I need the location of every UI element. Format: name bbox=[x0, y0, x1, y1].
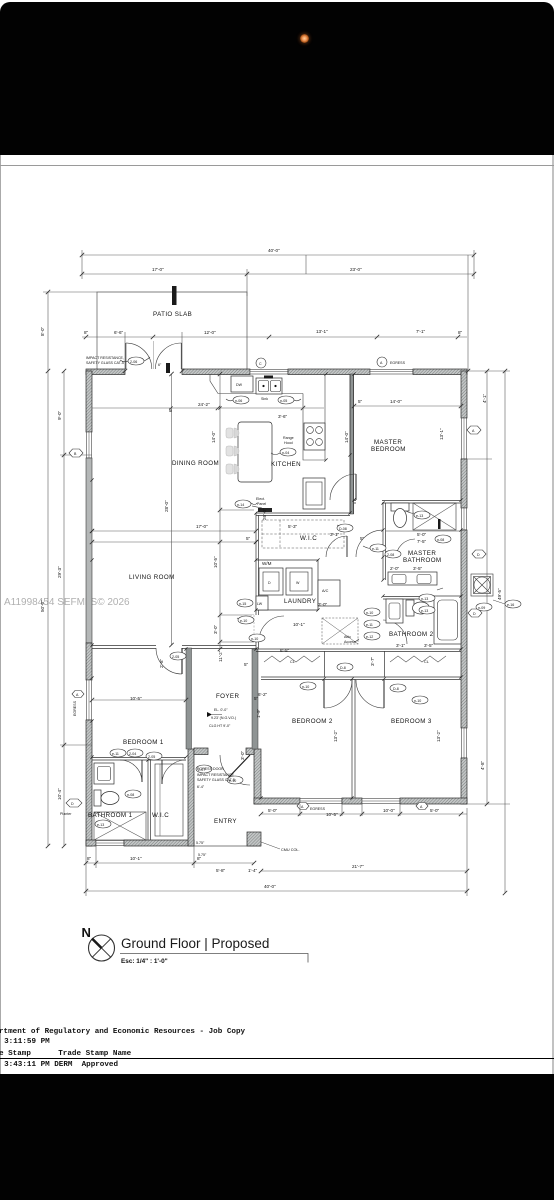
interior wall: bathroom2 top (y597) bbox=[383, 597, 461, 600]
exterior wall: left, lower segment bbox=[86, 720, 92, 846]
svg-text:6'-2": 6'-2" bbox=[258, 692, 268, 697]
svg-text:W.I.C: W.I.C bbox=[300, 535, 317, 542]
svg-text:IMPACT RESISTANCE: IMPACT RESISTANCE bbox=[197, 773, 235, 777]
dimension: left 9'-0" / 29'-3" / 10'-4" bbox=[57, 371, 92, 846]
entry front wall segment right bbox=[246, 748, 254, 755]
interior wall: bedroom2/3 divider (x353) bbox=[352, 679, 355, 798]
svg-text:3'-1": 3'-1" bbox=[330, 532, 340, 537]
svg-text:5": 5" bbox=[358, 399, 363, 404]
svg-text:3'-0": 3'-0" bbox=[213, 624, 218, 634]
svg-text:10'-5": 10'-5" bbox=[213, 556, 218, 568]
svg-text:6'-4": 6'-4" bbox=[197, 785, 205, 789]
window: living room upper (left wall) bbox=[87, 432, 92, 458]
callout oval 2-05 living door bbox=[170, 652, 186, 660]
svg-text:5'-0": 5'-0" bbox=[430, 808, 440, 813]
dimension: left 50'-0" overall bbox=[40, 371, 48, 846]
svg-text:MASTER: MASTER bbox=[374, 439, 402, 446]
window: bedroom1 egress (left wall) bbox=[87, 680, 92, 720]
exterior wall: left, long gray segment bbox=[86, 458, 92, 643]
callout oval e-12 core bbox=[364, 632, 380, 640]
svg-text:2-06: 2-06 bbox=[130, 360, 137, 364]
svg-text:8": 8" bbox=[458, 330, 463, 335]
svg-text:Sink: Sink bbox=[261, 397, 268, 401]
svg-text:n-05: n-05 bbox=[280, 399, 287, 403]
svg-text:6": 6" bbox=[158, 363, 162, 367]
svg-text:EGRESS: EGRESS bbox=[310, 807, 326, 811]
svg-text:13'-1": 13'-1" bbox=[439, 428, 444, 440]
svg-text:BATHROOM 2: BATHROOM 2 bbox=[389, 631, 434, 638]
svg-text:24'-2": 24'-2" bbox=[198, 402, 210, 407]
svg-text:n-13: n-13 bbox=[421, 597, 428, 601]
master bath shower bbox=[413, 503, 456, 530]
title underline bbox=[120, 954, 308, 963]
svg-text:2-04: 2-04 bbox=[129, 752, 136, 756]
svg-text:MASTER: MASTER bbox=[408, 550, 436, 557]
svg-text:n-09: n-09 bbox=[478, 606, 485, 610]
window: bathroom1 (bottom wall) bbox=[96, 841, 124, 846]
svg-text:6'-6": 6'-6" bbox=[114, 330, 124, 335]
bathroom2 vanity bbox=[386, 599, 403, 623]
callout oval n-10 core door bbox=[249, 634, 265, 642]
dim line x220 vertical (14'-0"/10'-5"/3'-0") bbox=[213, 374, 254, 649]
bedroom1 door swing bbox=[156, 648, 182, 674]
interior dims master bbox=[354, 399, 461, 440]
svg-text:CMU COL.: CMU COL. bbox=[281, 848, 300, 852]
washer box bbox=[286, 568, 312, 595]
svg-text:D: D bbox=[477, 553, 480, 557]
interior wall: foyer right / bedroom2 left (x252) bbox=[252, 649, 258, 749]
callout oval n-08 bath2 bbox=[435, 535, 451, 543]
svg-text:3'-5": 3'-5" bbox=[413, 566, 423, 571]
interior dims kitchen bbox=[92, 402, 349, 443]
callout oval n-13 mbath2 bbox=[419, 594, 435, 602]
callout oval D-08 hall bbox=[337, 524, 353, 532]
svg-text:DW: DW bbox=[236, 383, 243, 387]
callout oval e-13 shower bbox=[414, 511, 430, 519]
bathroom2 tub bbox=[434, 596, 461, 644]
page viewer border right bbox=[552, 155, 554, 1074]
svg-text:11'-2": 11'-2" bbox=[218, 650, 223, 662]
svg-text:12'-0": 12'-0" bbox=[204, 330, 216, 335]
callout oval D-8 bed3 door bbox=[390, 684, 406, 692]
callout oval 2-06 patio door bbox=[128, 357, 144, 365]
interior wall: core top (y513) bbox=[256, 513, 350, 516]
window: master bedroom egress (top wall) bbox=[370, 370, 413, 375]
hexagon A right (master window) bbox=[467, 426, 481, 434]
svg-text:n-15: n-15 bbox=[239, 602, 246, 606]
window: bedroom2 (bottom wall) bbox=[300, 799, 342, 804]
svg-text:e-11: e-11 bbox=[372, 547, 379, 551]
A/C closet bbox=[318, 580, 340, 606]
interior wall: core left (x256) bbox=[256, 513, 259, 649]
svg-text:e-13: e-13 bbox=[97, 823, 104, 827]
skylight detail right side bbox=[471, 574, 493, 596]
bathroom1 / wic1 walls bbox=[92, 758, 186, 841]
dimension tick slashes bbox=[46, 253, 507, 895]
svg-text:5'-3": 5'-3" bbox=[288, 524, 298, 529]
svg-text:LAUNDRY: LAUNDRY bbox=[284, 598, 316, 605]
svg-text:14'-0": 14'-0" bbox=[211, 431, 216, 443]
svg-text:40'-0": 40'-0" bbox=[264, 884, 276, 889]
callout oval 2-04 bed1 bbox=[127, 749, 143, 757]
window extension lines bottom bbox=[300, 255, 400, 816]
svg-text:4'-1": 4'-1" bbox=[482, 393, 487, 403]
svg-text:10'-5": 10'-5" bbox=[326, 812, 338, 817]
svg-text:e-11: e-11 bbox=[366, 623, 373, 627]
master bath counter line and valve bbox=[386, 519, 460, 544]
svg-text:10'-1": 10'-1" bbox=[130, 856, 142, 861]
svg-text:7'-5": 7'-5" bbox=[417, 539, 427, 544]
callout oval n-10 bed2 bbox=[300, 682, 316, 690]
svg-text:3'-6": 3'-6" bbox=[278, 414, 288, 419]
window: bedroom3 (bottom wall) bbox=[362, 799, 400, 804]
svg-text:EGRESS: EGRESS bbox=[390, 361, 406, 365]
CMU column at porch corner bbox=[247, 832, 261, 846]
interior wall: closet row bottom / bedrooms top (y678) bbox=[261, 677, 461, 680]
window: kitchen (top wall) bbox=[250, 370, 288, 375]
window: master bath (right wall) bbox=[462, 508, 467, 530]
callout oval n-10 hall bbox=[364, 608, 380, 616]
svg-text:50'-0": 50'-0" bbox=[40, 600, 45, 612]
svg-text:8'-0": 8'-0" bbox=[40, 326, 45, 336]
svg-text:W/M: W/M bbox=[262, 561, 272, 566]
svg-text:BEDROOM 2: BEDROOM 2 bbox=[292, 718, 333, 725]
top black band bbox=[0, 2, 554, 155]
svg-text:BATHROOM 1: BATHROOM 1 bbox=[88, 812, 133, 819]
dimension: overall width 40'-0" top bbox=[82, 248, 474, 371]
svg-text:Access: Access bbox=[344, 640, 356, 644]
svg-text:3'-1": 3'-1" bbox=[396, 643, 406, 648]
svg-text:13'-2": 13'-2" bbox=[333, 730, 338, 742]
svg-text:1'-9": 1'-9" bbox=[256, 708, 261, 718]
egress hexagon left bedroom1 bbox=[72, 691, 84, 717]
front door swing bbox=[220, 755, 250, 785]
svg-text:CL: CL bbox=[424, 660, 429, 664]
callout oval e-11 bed1 bbox=[110, 749, 126, 757]
callout oval n-14 panel bbox=[235, 500, 251, 508]
closet bifold doors bedroom3 bbox=[385, 651, 447, 677]
interior dims misc core bbox=[244, 532, 434, 667]
svg-text:Range: Range bbox=[283, 436, 294, 440]
svg-text:10'-1": 10'-1" bbox=[293, 622, 305, 627]
circle A top egress bbox=[377, 357, 406, 367]
svg-text:13'-2": 13'-2" bbox=[436, 730, 441, 742]
level marker foyer bbox=[207, 708, 236, 728]
svg-text:LIVING ROOM: LIVING ROOM bbox=[129, 574, 175, 581]
refrigerator bbox=[303, 478, 325, 509]
svg-text:N: N bbox=[82, 925, 91, 940]
dim line y542 living bbox=[92, 536, 256, 542]
bedroom2 door swing from hall bbox=[324, 680, 352, 708]
dryer box bbox=[259, 568, 283, 595]
svg-text:5'-8": 5'-8" bbox=[216, 868, 226, 873]
svg-text:CLG HT 9'-0": CLG HT 9'-0" bbox=[209, 724, 231, 728]
svg-text:2'-0": 2'-0" bbox=[390, 566, 400, 571]
svg-text:Attic: Attic bbox=[344, 635, 351, 639]
svg-text:n-04: n-04 bbox=[282, 451, 289, 455]
svg-text:6'-5": 6'-5" bbox=[280, 648, 290, 653]
svg-text:23'-0": 23'-0" bbox=[350, 267, 362, 272]
interior wall: kitchen/master divider (vertical x351) bbox=[350, 374, 354, 514]
callout leader lines bbox=[120, 357, 443, 642]
extra small dims core bbox=[262, 524, 328, 607]
exterior wall: right, segment 3 bbox=[461, 530, 467, 728]
exterior wall: top, segment between patio door and kitchen window bbox=[182, 369, 250, 375]
window: master bedroom (right wall) bbox=[462, 418, 467, 459]
svg-text:Elect.: Elect. bbox=[256, 497, 265, 501]
svg-text:26'-0": 26'-0" bbox=[262, 508, 267, 520]
callout oval n-09 right bbox=[476, 603, 492, 611]
orange indicator dot bbox=[300, 34, 309, 43]
svg-text:A/C: A/C bbox=[322, 589, 329, 593]
svg-text:EGRESS: EGRESS bbox=[73, 700, 77, 716]
svg-text:3'-0": 3'-0" bbox=[240, 750, 245, 760]
callout oval e-10 entry bbox=[227, 776, 243, 784]
svg-text:7'-1": 7'-1" bbox=[416, 329, 426, 334]
exterior wall: top, segment right bbox=[413, 369, 467, 375]
laundry sink small bbox=[256, 596, 268, 610]
exterior wall: left, mid hatched segment bbox=[86, 643, 92, 680]
egress door note entry bbox=[197, 767, 235, 789]
svg-text:9.23' (N.G.V.D.): 9.23' (N.G.V.D.) bbox=[211, 716, 236, 720]
svg-text:2-05: 2-05 bbox=[172, 655, 179, 659]
svg-text:PATIO SLAB: PATIO SLAB bbox=[153, 311, 192, 318]
patio french doors bbox=[126, 341, 182, 373]
interior wall: bedroom1 right / foyer left (x186) bbox=[186, 648, 192, 749]
svg-text:10'-0": 10'-0" bbox=[383, 808, 395, 813]
svg-text:Planter: Planter bbox=[60, 812, 72, 816]
bathroom2 door swing bbox=[383, 620, 407, 644]
callout oval e-13 bath1 bbox=[95, 820, 111, 828]
svg-text:17'-0": 17'-0" bbox=[152, 267, 164, 272]
egress hexagon bottom bedroom2 bbox=[297, 803, 326, 812]
bathroom1 shower bbox=[94, 812, 146, 840]
svg-text:DINING ROOM: DINING ROOM bbox=[172, 460, 219, 467]
svg-text:n-10: n-10 bbox=[251, 637, 258, 641]
entry left wall bbox=[188, 749, 194, 846]
svg-text:3'-7": 3'-7" bbox=[370, 656, 375, 666]
hexagon D right lower bbox=[468, 609, 482, 617]
bedroom1 width dim line bbox=[92, 699, 186, 701]
callout oval e-13 mtoilet bbox=[419, 606, 435, 614]
svg-text:W.I.C: W.I.C bbox=[152, 812, 169, 819]
dimension: left 8'-0" patio bbox=[40, 292, 97, 371]
exterior wall: bedrooms bottom bbox=[254, 798, 300, 804]
svg-text:40'-0": 40'-0" bbox=[268, 248, 280, 253]
svg-text:n-08: n-08 bbox=[127, 793, 134, 797]
svg-text:14'-0": 14'-0" bbox=[344, 431, 349, 443]
interior dims living bbox=[92, 508, 267, 531]
svg-text:D-08: D-08 bbox=[339, 527, 347, 531]
svg-text:5": 5" bbox=[244, 662, 249, 667]
dimension row y337 bbox=[82, 329, 467, 371]
interior dims bedrooms bbox=[130, 650, 441, 760]
svg-text:EGRESS DOOR: EGRESS DOOR bbox=[197, 767, 224, 771]
kitchen double sink bbox=[256, 376, 282, 395]
svg-text:10'-5": 10'-5" bbox=[130, 696, 142, 701]
svg-text:n-10: n-10 bbox=[414, 699, 421, 703]
bathroom2 toilet bbox=[406, 600, 430, 616]
CMU COL. leader and label bbox=[261, 842, 300, 852]
interior wall: foyer top (y647) bbox=[182, 646, 256, 649]
svg-text:e-13: e-13 bbox=[421, 609, 428, 613]
callout oval n-15 core wall bbox=[237, 599, 253, 607]
impact resistance note patio door bbox=[86, 356, 124, 365]
exterior wall: right, segment 4 bbox=[461, 758, 467, 804]
exterior wall: left, upper segment bbox=[86, 371, 92, 432]
svg-text:14'-0": 14'-0" bbox=[390, 399, 402, 404]
svg-text:4'-8": 4'-8" bbox=[480, 760, 485, 770]
page viewer border left bbox=[0, 155, 2, 1074]
callout oval e-11 core bbox=[364, 620, 380, 628]
svg-text:D: D bbox=[268, 581, 271, 585]
svg-text:10'-4": 10'-4" bbox=[57, 788, 62, 800]
svg-text:BEDROOM 3: BEDROOM 3 bbox=[391, 718, 432, 725]
svg-text:1'-4": 1'-4" bbox=[248, 868, 258, 873]
entry right wall bbox=[254, 749, 261, 804]
svg-text:EL. 0'-0": EL. 0'-0" bbox=[214, 708, 228, 712]
svg-text:e-12: e-12 bbox=[366, 635, 373, 639]
svg-text:13'-1": 13'-1" bbox=[316, 329, 328, 334]
callout oval n-04 range bbox=[280, 448, 296, 456]
dimension: 17'-0" / 23'-0" bbox=[82, 267, 474, 296]
svg-text:IMPACT RESISTANCE,: IMPACT RESISTANCE, bbox=[86, 356, 124, 360]
svg-text:29'-3": 29'-3" bbox=[57, 566, 62, 578]
hexagon B left bbox=[69, 449, 83, 457]
svg-text:n-14: n-14 bbox=[237, 503, 244, 507]
hexagon D right bbox=[472, 550, 486, 558]
svg-text:21'-7": 21'-7" bbox=[352, 864, 364, 869]
svg-text:LW: LW bbox=[257, 602, 263, 606]
callout oval 2-08 mbath bbox=[385, 550, 401, 558]
interior wall: hall bottom / closet row top (y649) bbox=[256, 649, 461, 652]
closet bifold doors bedroom2 bbox=[264, 651, 325, 677]
svg-text:5": 5" bbox=[360, 536, 365, 541]
master bedroom door bbox=[330, 474, 382, 504]
patio slab outline bbox=[97, 292, 247, 371]
svg-text:Ground Floor | Proposed: Ground Floor | Proposed bbox=[121, 936, 269, 951]
callout oval n-05 sink bbox=[278, 396, 294, 404]
entry porch edge bbox=[194, 845, 261, 847]
svg-text:2-08: 2-08 bbox=[387, 553, 394, 557]
attic access bbox=[322, 618, 358, 644]
title compass bbox=[82, 925, 115, 961]
laundry room walls bbox=[256, 560, 318, 610]
svg-text:D: D bbox=[71, 802, 74, 806]
dimension: bottom rows bbox=[86, 808, 467, 896]
svg-text:5.75": 5.75" bbox=[196, 841, 205, 845]
svg-text:CL: CL bbox=[290, 660, 295, 664]
svg-text:49'-5": 49'-5" bbox=[497, 588, 502, 600]
bottom stamp text block bbox=[0, 1026, 554, 1074]
interior wall: master bath top (y501) bbox=[354, 501, 461, 504]
kitchen counter edge bbox=[210, 374, 326, 460]
svg-text:n-10: n-10 bbox=[302, 685, 309, 689]
bathroom1 toilet bbox=[94, 790, 119, 806]
entry front wall segment bbox=[194, 748, 208, 755]
callout oval 2-07 entry bbox=[196, 765, 212, 773]
svg-text:2-05: 2-05 bbox=[148, 755, 155, 759]
svg-text:5": 5" bbox=[246, 536, 251, 541]
svg-text:SAFETY GLASS CAT-5: SAFETY GLASS CAT-5 bbox=[197, 778, 235, 782]
master bath door swing bbox=[356, 530, 383, 557]
window: bedroom3 (right wall) bbox=[462, 728, 467, 758]
callout oval n-10 bed3 bbox=[412, 696, 428, 704]
planter hexagon left bbox=[60, 799, 82, 816]
svg-text:n-08: n-08 bbox=[437, 538, 444, 542]
svg-text:n-06: n-06 bbox=[235, 399, 242, 403]
svg-text:A11998454 SEFMLS© 2026: A11998454 SEFMLS© 2026 bbox=[4, 597, 130, 608]
svg-text:3'-0": 3'-0" bbox=[318, 602, 328, 607]
interior wall: living/bedroom1 (y647) bbox=[92, 646, 156, 649]
page top rule bbox=[0, 165, 554, 167]
svg-text:2'-8": 2'-8" bbox=[159, 658, 164, 668]
svg-text:KITCHEN: KITCHEN bbox=[271, 461, 301, 468]
svg-text:FOYER: FOYER bbox=[216, 693, 239, 700]
svg-text:Esc: 1/4" : 1'-0": Esc: 1/4" : 1'-0" bbox=[121, 958, 168, 965]
wic1 door swing bbox=[162, 760, 186, 784]
svg-text:D: D bbox=[473, 612, 476, 616]
svg-text:Hood: Hood bbox=[284, 441, 293, 445]
bedroom3 door swing from hall bbox=[356, 680, 384, 708]
exterior wall: right, upper segment bbox=[461, 371, 467, 418]
svg-text:e-13: e-13 bbox=[416, 514, 423, 518]
patio column mark bbox=[172, 286, 177, 305]
master bath door arc bbox=[396, 539, 415, 558]
egress hexagon bottom bedroom3 bbox=[416, 803, 428, 810]
exterior wall: right, segment 2 bbox=[461, 459, 467, 508]
bathroom1 door swing bbox=[120, 760, 142, 782]
svg-text:e-10: e-10 bbox=[240, 619, 247, 623]
exterior wall: top, segment mid-right bbox=[288, 369, 370, 375]
dimension: bedrooms bottom interior bbox=[261, 808, 467, 817]
laundry door in core wall bbox=[252, 615, 284, 641]
circle C top bbox=[256, 358, 266, 368]
electrical panel bbox=[256, 497, 272, 512]
exterior wall: bedrooms bottom mid bbox=[342, 798, 362, 804]
svg-text:8": 8" bbox=[87, 856, 92, 861]
svg-text:28'-0": 28'-0" bbox=[164, 500, 169, 512]
svg-text:ENTRY: ENTRY bbox=[214, 818, 237, 825]
master bath toilet bbox=[391, 503, 409, 528]
svg-text:BEDROOM: BEDROOM bbox=[371, 446, 406, 453]
svg-text:e-16: e-16 bbox=[507, 603, 514, 607]
callout oval e-10 laundry bbox=[238, 616, 254, 624]
svg-text:5'-0": 5'-0" bbox=[268, 808, 278, 813]
dim line 28'-0" dining/living vertical bbox=[164, 374, 172, 645]
svg-text:Panel: Panel bbox=[257, 502, 266, 506]
svg-text:9'-0": 9'-0" bbox=[57, 410, 62, 420]
svg-text:n-10: n-10 bbox=[366, 611, 373, 615]
svg-text:17'-0": 17'-0" bbox=[196, 524, 208, 529]
dining table bbox=[226, 422, 272, 482]
svg-text:BATHROOM: BATHROOM bbox=[403, 557, 442, 564]
exterior wall: bottom-left segment 2 bbox=[124, 840, 194, 846]
svg-text:W: W bbox=[296, 581, 300, 585]
interior wall: master bath left (x383) bbox=[383, 503, 386, 580]
svg-text:5.75": 5.75" bbox=[198, 853, 207, 857]
svg-text:D-8: D-8 bbox=[340, 666, 346, 670]
callout oval e-11 mbath bbox=[370, 544, 386, 552]
svg-text:6": 6" bbox=[168, 407, 173, 412]
svg-text:e-11: e-11 bbox=[112, 752, 119, 756]
range / stove bbox=[304, 423, 325, 450]
master bath vanity bbox=[388, 572, 437, 585]
callout oval n-06 dw bbox=[233, 396, 249, 404]
dimension: right verticals bbox=[467, 371, 510, 893]
dishwasher DW bbox=[231, 376, 253, 392]
WIC hall closet dashed shelves bbox=[262, 520, 344, 548]
